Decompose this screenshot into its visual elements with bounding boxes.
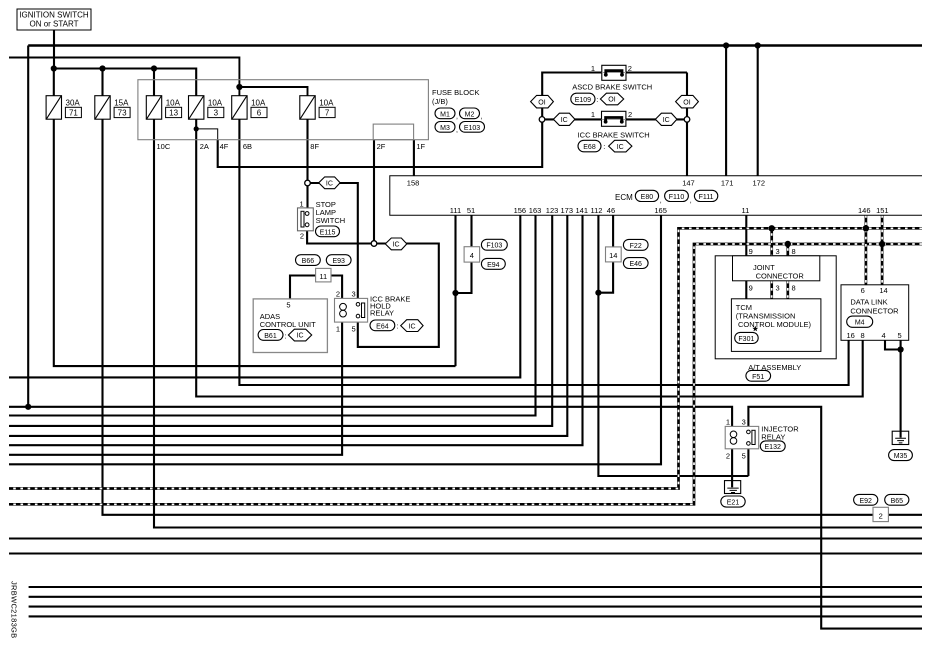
svg-text:10C: 10C	[157, 142, 171, 151]
connector oval E68 with IC hexagon	[578, 140, 632, 152]
svg-text:M4: M4	[855, 320, 865, 327]
connector oval F103	[481, 239, 507, 250]
wire: ignition switch feed	[53, 30, 55, 69]
svg-text:DATA LINK: DATA LINK	[850, 298, 887, 307]
svg-text:3: 3	[214, 109, 219, 118]
svg-text:E46: E46	[629, 261, 642, 268]
junction dot ignition bus fuse 71	[51, 65, 57, 71]
connector oval E64 with IC hexagon	[370, 320, 423, 332]
wire: splice to IC hexagon and ICC brake hold relay pin 3	[308, 183, 358, 298]
wire: branch from fuse6 wire to fuse 7	[239, 87, 307, 96]
svg-text:9: 9	[749, 283, 753, 292]
svg-text:,: ,	[690, 198, 692, 205]
svg-text:IC: IC	[393, 242, 400, 249]
svg-text:IC: IC	[617, 144, 624, 151]
wire: injector relay pin 5 stub	[747, 449, 749, 476]
junction dot DLC pins 4/5	[898, 346, 904, 352]
junction dot power line pin 172	[755, 42, 761, 48]
svg-text:,: ,	[456, 127, 458, 134]
wire: fuse 71 output to ECM pin 111 (bus1)	[54, 119, 456, 366]
wire: fuse 3 output 2A down to data link connector pin 8 (busB)	[196, 119, 863, 396]
svg-text:8: 8	[861, 331, 865, 340]
svg-text:IC: IC	[297, 333, 304, 340]
wire: injector relay pin 3 to bottom right	[748, 407, 922, 629]
ground M35	[892, 431, 909, 444]
junction dot busC left drop	[25, 404, 31, 410]
svg-text:F110: F110	[669, 194, 685, 201]
IC hexagon stop lamp splice 2	[385, 238, 407, 250]
wire: long line at y=553.5	[9, 552, 922, 554]
svg-text:,: ,	[660, 198, 662, 205]
svg-text:E64: E64	[376, 323, 389, 330]
svg-text:30A: 30A	[66, 99, 81, 108]
ICC brake hold relay	[335, 290, 411, 334]
svg-text:10A: 10A	[319, 99, 334, 108]
wire: splice busC to injector relay pin 1	[9, 407, 732, 427]
wire: CAN line A black base	[9, 228, 922, 488]
svg-text:16: 16	[847, 331, 855, 340]
wire: bottom line 1	[29, 586, 922, 588]
svg-text:F103: F103	[486, 243, 502, 250]
svg-text:RELAY: RELAY	[370, 309, 394, 318]
svg-text:5: 5	[286, 300, 290, 309]
wire: 4F feed to brake switches	[218, 73, 602, 168]
connector oval E103	[460, 122, 485, 133]
svg-text:2: 2	[336, 290, 340, 299]
ASCD brake switch	[572, 64, 652, 92]
connector oval M3	[435, 122, 458, 135]
svg-text:158: 158	[407, 178, 420, 187]
svg-text:E109: E109	[575, 97, 591, 104]
TCM box	[731, 299, 821, 352]
wire: second power line to fuse 6	[9, 58, 239, 96]
ECM bottom pin labels	[450, 206, 889, 215]
svg-text:IC: IC	[663, 117, 670, 124]
svg-text:10A: 10A	[208, 99, 223, 108]
junction dot CAN B pin 151	[879, 241, 885, 247]
svg-text:(J/B): (J/B)	[432, 97, 448, 106]
fuse block 2F/1F notch	[373, 124, 413, 140]
svg-text:4F: 4F	[220, 142, 229, 151]
svg-text:3: 3	[352, 290, 356, 299]
svg-text:E80: E80	[641, 194, 654, 201]
wire: stub to fuse 71	[53, 69, 55, 96]
svg-text:IC: IC	[326, 181, 333, 188]
data link connector box	[841, 285, 909, 341]
svg-text:E103: E103	[464, 125, 480, 132]
wire: vertical drop from power line to splice busC	[27, 46, 29, 407]
svg-text:ECM: ECM	[615, 193, 633, 202]
wire: ECM pin 156 to left edge (bus2)	[9, 215, 520, 377]
svg-text:112: 112	[591, 206, 603, 215]
wire: fuse 73 output down to connector 2 line	[103, 119, 923, 515]
svg-text:4: 4	[470, 251, 474, 260]
svg-text:IGNITION SWITCH: IGNITION SWITCH	[19, 11, 89, 20]
wire: long line at y=538.5	[9, 537, 922, 539]
svg-text:E132: E132	[765, 444, 781, 451]
wire: ECM pin 46 through connector 14 to junction	[598, 215, 613, 293]
svg-text:B66: B66	[302, 258, 315, 265]
svg-text:CONNECTOR: CONNECTOR	[850, 307, 899, 316]
svg-text:,: ,	[481, 114, 483, 121]
svg-text:3: 3	[776, 247, 780, 256]
svg-text:6B: 6B	[243, 142, 252, 151]
svg-text:FUSE BLOCK: FUSE BLOCK	[432, 88, 480, 97]
wire: ECM pin 173 to left edge (bus5)	[9, 215, 567, 436]
svg-text:2A: 2A	[200, 142, 209, 151]
wire: CAN drop to joint connector pin 3	[770, 228, 773, 298]
wire: 4F branch inside fuse block	[196, 129, 218, 140]
IC hexagon ICC line right	[655, 113, 677, 125]
wire: bottom line 3	[29, 606, 922, 608]
svg-text:M35: M35	[894, 453, 908, 460]
wire: fuse 13 output 10C down to long line	[154, 119, 922, 527]
svg-text:E21: E21	[727, 500, 740, 507]
svg-text::: :	[603, 142, 605, 151]
wire: ICC brake switch line left	[542, 118, 602, 120]
IC hexagon ICC line left	[553, 113, 575, 125]
connector oval B66	[296, 255, 321, 266]
wire: ECM pin 111 drop	[454, 215, 456, 366]
wire: ECM pin 141 to left edge (bus6)	[9, 215, 583, 445]
wire: ECM pin 112 down to injector relay pin 5	[598, 215, 748, 476]
svg-text:1: 1	[591, 110, 595, 119]
svg-text:E92: E92	[859, 498, 872, 505]
junction dot CAN A joint connector 3	[769, 225, 775, 231]
junction dot ignition bus fuse 73	[99, 65, 105, 71]
fuse block (J/B) box	[138, 80, 429, 140]
wire: ADAS connector 11 to ICC brake hold relay pin 2	[331, 276, 342, 299]
wire: CAN line B black base	[9, 244, 922, 504]
svg-text:123: 123	[546, 206, 559, 215]
svg-text:163: 163	[529, 206, 542, 215]
connector oval E21	[721, 496, 745, 507]
wire: fuse 6 output 6B to data link connector pin 16 (busA)	[239, 119, 848, 385]
svg-text:ASCD BRAKE SWITCH: ASCD BRAKE SWITCH	[572, 83, 652, 92]
svg-text:51: 51	[467, 206, 475, 215]
wire: riser splice to ECM pin 147	[686, 73, 688, 176]
svg-text:RELAY: RELAY	[761, 433, 785, 442]
svg-text:M2: M2	[465, 111, 475, 118]
svg-text:3: 3	[776, 283, 780, 292]
svg-text:E115: E115	[320, 229, 336, 236]
svg-text:ICC BRAKE SWITCH: ICC BRAKE SWITCH	[578, 130, 650, 139]
ECM box	[390, 176, 922, 216]
svg-text:6: 6	[861, 286, 865, 295]
connector oval M1	[435, 108, 458, 121]
wire: power line to ECM pin 172	[757, 46, 759, 176]
connector oval E115	[316, 226, 340, 237]
junction dot pins 111/51	[452, 290, 458, 296]
fuse 10A 6	[232, 96, 267, 120]
wire: ICC brake hold relay pin 1 to left edge (bus7)	[9, 322, 342, 455]
svg-text:5: 5	[898, 331, 902, 340]
ground E21	[725, 481, 741, 494]
svg-text:2: 2	[879, 511, 883, 520]
wire: injector relay pin 2 to ground E21	[731, 449, 733, 481]
junction dot 2A/4F branch	[194, 126, 199, 131]
connector oval F110	[665, 190, 692, 204]
svg-text:156: 156	[514, 206, 527, 215]
wire: joint connector pin 9 to TCM pin 9	[745, 281, 747, 299]
wire: ECM pin 163 to left edge (bus3)	[9, 215, 536, 415]
junction dot CAN A pin 146	[863, 225, 869, 231]
fuse 15A 73	[95, 96, 130, 120]
svg-text:11: 11	[742, 206, 750, 215]
wire: fuse 7 output 8F to stop lamp switch	[306, 119, 308, 208]
svg-text:2: 2	[628, 64, 632, 73]
fuse 10A 7	[300, 96, 335, 120]
svg-text:151: 151	[876, 206, 889, 215]
svg-text:B61: B61	[264, 333, 277, 340]
junction dot fuse6/fuse7 branch	[236, 84, 242, 90]
wire: CAN ECM pin 151 to data link connector pin 14	[881, 215, 884, 285]
svg-text:4: 4	[882, 331, 886, 340]
svg-text:10A: 10A	[166, 99, 181, 108]
svg-text:1: 1	[591, 64, 595, 73]
junction dot CAN B joint connector 8	[785, 241, 791, 247]
svg-text:6: 6	[257, 109, 262, 118]
connector oval E109 with OI hexagon	[571, 93, 624, 105]
svg-text:146: 146	[858, 206, 871, 215]
splice circle brake switch right	[684, 117, 690, 123]
svg-text:B65: B65	[891, 498, 904, 505]
svg-text:3: 3	[742, 418, 746, 427]
wire: data link connector pin 5 to ground M35	[900, 340, 902, 431]
svg-text:1: 1	[300, 199, 304, 208]
wire: ignition bus to fuses	[54, 69, 196, 96]
svg-text:2: 2	[300, 232, 304, 241]
fuse 10A 13	[146, 96, 181, 120]
svg-text:46: 46	[607, 206, 615, 215]
svg-text:E94: E94	[487, 262, 500, 269]
svg-text:E68: E68	[583, 144, 596, 151]
wire: ECM pin 165 to left edge (bus8)	[9, 215, 661, 464]
wire: stub to fuse 73	[101, 69, 103, 96]
svg-text:F111: F111	[699, 194, 714, 201]
svg-text:14: 14	[609, 251, 617, 260]
svg-text:CONTROL UNIT: CONTROL UNIT	[260, 320, 316, 329]
svg-text:13: 13	[169, 109, 178, 118]
wire: splice through IC hexagon down to ICC brake hold relay pin 5	[358, 244, 439, 347]
splice circle 8F stop lamp	[305, 180, 311, 186]
svg-text:5: 5	[352, 324, 356, 333]
svg-text:171: 171	[721, 178, 734, 187]
svg-text:CONTROL MODULE): CONTROL MODULE)	[738, 320, 812, 329]
connector oval E80	[635, 190, 662, 204]
svg-text:F51: F51	[752, 374, 764, 381]
svg-text:ON or START: ON or START	[29, 20, 78, 29]
svg-text:SWITCH: SWITCH	[316, 216, 346, 225]
svg-text:OI: OI	[538, 99, 545, 106]
svg-text:M3: M3	[440, 125, 450, 132]
svg-text:E93: E93	[332, 258, 345, 265]
injector relay	[725, 418, 799, 461]
connector oval F111	[694, 190, 717, 201]
svg-text:5: 5	[742, 452, 746, 461]
wire: ECM pin 51 through connector 4 to junction	[456, 215, 472, 293]
svg-text:71: 71	[69, 109, 78, 118]
wire: power line to ECM pin 171	[725, 46, 727, 176]
ignition switch box	[17, 9, 91, 30]
svg-text:JRBWC2183GB: JRBWC2183GB	[10, 581, 19, 639]
wire: fuse block 1F output to ECM pin 158	[413, 140, 415, 176]
connector oval E92	[854, 494, 878, 505]
connector box 14	[606, 247, 622, 262]
wire: ICC brake switch line right	[626, 118, 687, 120]
svg-text:,: ,	[456, 114, 458, 121]
svg-text:9: 9	[749, 247, 753, 256]
A/T assembly box	[715, 256, 836, 372]
svg-text:7: 7	[325, 109, 330, 118]
wire: CAN ECM pin 146 to data link connector pin 6	[865, 215, 868, 285]
svg-text:15A: 15A	[114, 99, 129, 108]
svg-text::: :	[596, 95, 598, 104]
svg-text:172: 172	[753, 178, 766, 187]
wire: ADAS connector 11 to ADAS control unit pin 5	[290, 276, 316, 299]
splice circle 2F stop lamp pin2	[371, 241, 377, 247]
svg-text:165: 165	[654, 206, 667, 215]
connector oval M4	[847, 316, 873, 327]
svg-text:141: 141	[576, 206, 589, 215]
connector oval B65	[885, 494, 909, 505]
junction dot power line pin 171	[723, 42, 729, 48]
connector box 4	[464, 247, 480, 262]
svg-text:111: 111	[450, 206, 461, 215]
connector oval F22	[623, 239, 648, 250]
joint connector box	[733, 247, 820, 292]
svg-text:10A: 10A	[251, 99, 266, 108]
fuse block labels	[157, 88, 480, 151]
svg-text:IC: IC	[409, 323, 416, 330]
OI hexagon left riser	[531, 95, 554, 108]
svg-text:147: 147	[682, 178, 695, 187]
svg-text:IC: IC	[561, 117, 568, 124]
wire: stop lamp switch pin 2 to splice	[307, 227, 374, 244]
connector oval E94	[481, 258, 505, 269]
svg-text:1F: 1F	[416, 142, 425, 151]
OI hexagon right riser	[676, 95, 699, 108]
stop lamp switch	[298, 199, 346, 240]
wire: stub to fuse 13	[153, 69, 155, 96]
wire: CAN drop to joint connector pin 8	[786, 244, 789, 299]
connector box 11	[316, 268, 331, 282]
svg-text:173: 173	[561, 206, 574, 215]
connector oval F51	[746, 370, 771, 381]
svg-text:OI: OI	[683, 99, 690, 106]
svg-text:2: 2	[726, 452, 730, 461]
fuse 10A 3	[189, 96, 224, 120]
wire: ASCD brake switch pin 2 to riser	[626, 71, 687, 73]
junction dot ignition bus fuse 13	[151, 65, 157, 71]
IC hexagon stop lamp splice 1	[319, 177, 340, 189]
svg-text:F22: F22	[630, 243, 642, 250]
wire: ECM pin 11 to joint connector pin 9	[745, 215, 747, 256]
connector oval M2	[460, 108, 483, 121]
wire: fuse block 2F output down to splice	[373, 140, 375, 244]
svg-text:11: 11	[319, 272, 327, 281]
svg-text:F301: F301	[738, 336, 754, 343]
svg-text:8F: 8F	[310, 142, 319, 151]
svg-text:1: 1	[336, 324, 340, 333]
svg-text:M1: M1	[440, 111, 450, 118]
splice circle brake switch left	[539, 117, 545, 123]
connector oval M35	[889, 450, 913, 461]
svg-text:2F: 2F	[377, 142, 386, 151]
svg-text:1: 1	[726, 418, 730, 427]
svg-text:CONNECTOR: CONNECTOR	[756, 271, 805, 280]
svg-text::: :	[285, 331, 287, 340]
svg-text:8: 8	[792, 283, 796, 292]
wire: data link connector pin 4 to ground junction	[885, 340, 901, 349]
svg-text:14: 14	[879, 286, 887, 295]
wire: battery power line top	[28, 44, 922, 46]
connector box 2	[873, 507, 888, 521]
svg-text:73: 73	[118, 109, 127, 118]
connector oval F301	[735, 332, 759, 343]
connector oval E93	[326, 255, 351, 266]
connector oval E46	[623, 258, 648, 269]
svg-text:2: 2	[628, 110, 632, 119]
svg-text:8: 8	[792, 247, 796, 256]
wire: CAN white dash overlay	[9, 215, 922, 504]
connector oval E132	[760, 441, 785, 452]
svg-text:OI: OI	[608, 97, 615, 104]
wire: bottom line 2	[29, 596, 922, 598]
wire: ECM pin 123 to left edge (bus4)	[9, 215, 552, 426]
fuse 30A 71	[46, 96, 81, 120]
svg-text::: :	[396, 322, 398, 331]
ICC brake switch	[578, 110, 650, 139]
ADAS control unit	[253, 299, 327, 353]
junction dot pins 112/46	[595, 290, 601, 296]
wire: bottom line 4	[29, 615, 922, 617]
